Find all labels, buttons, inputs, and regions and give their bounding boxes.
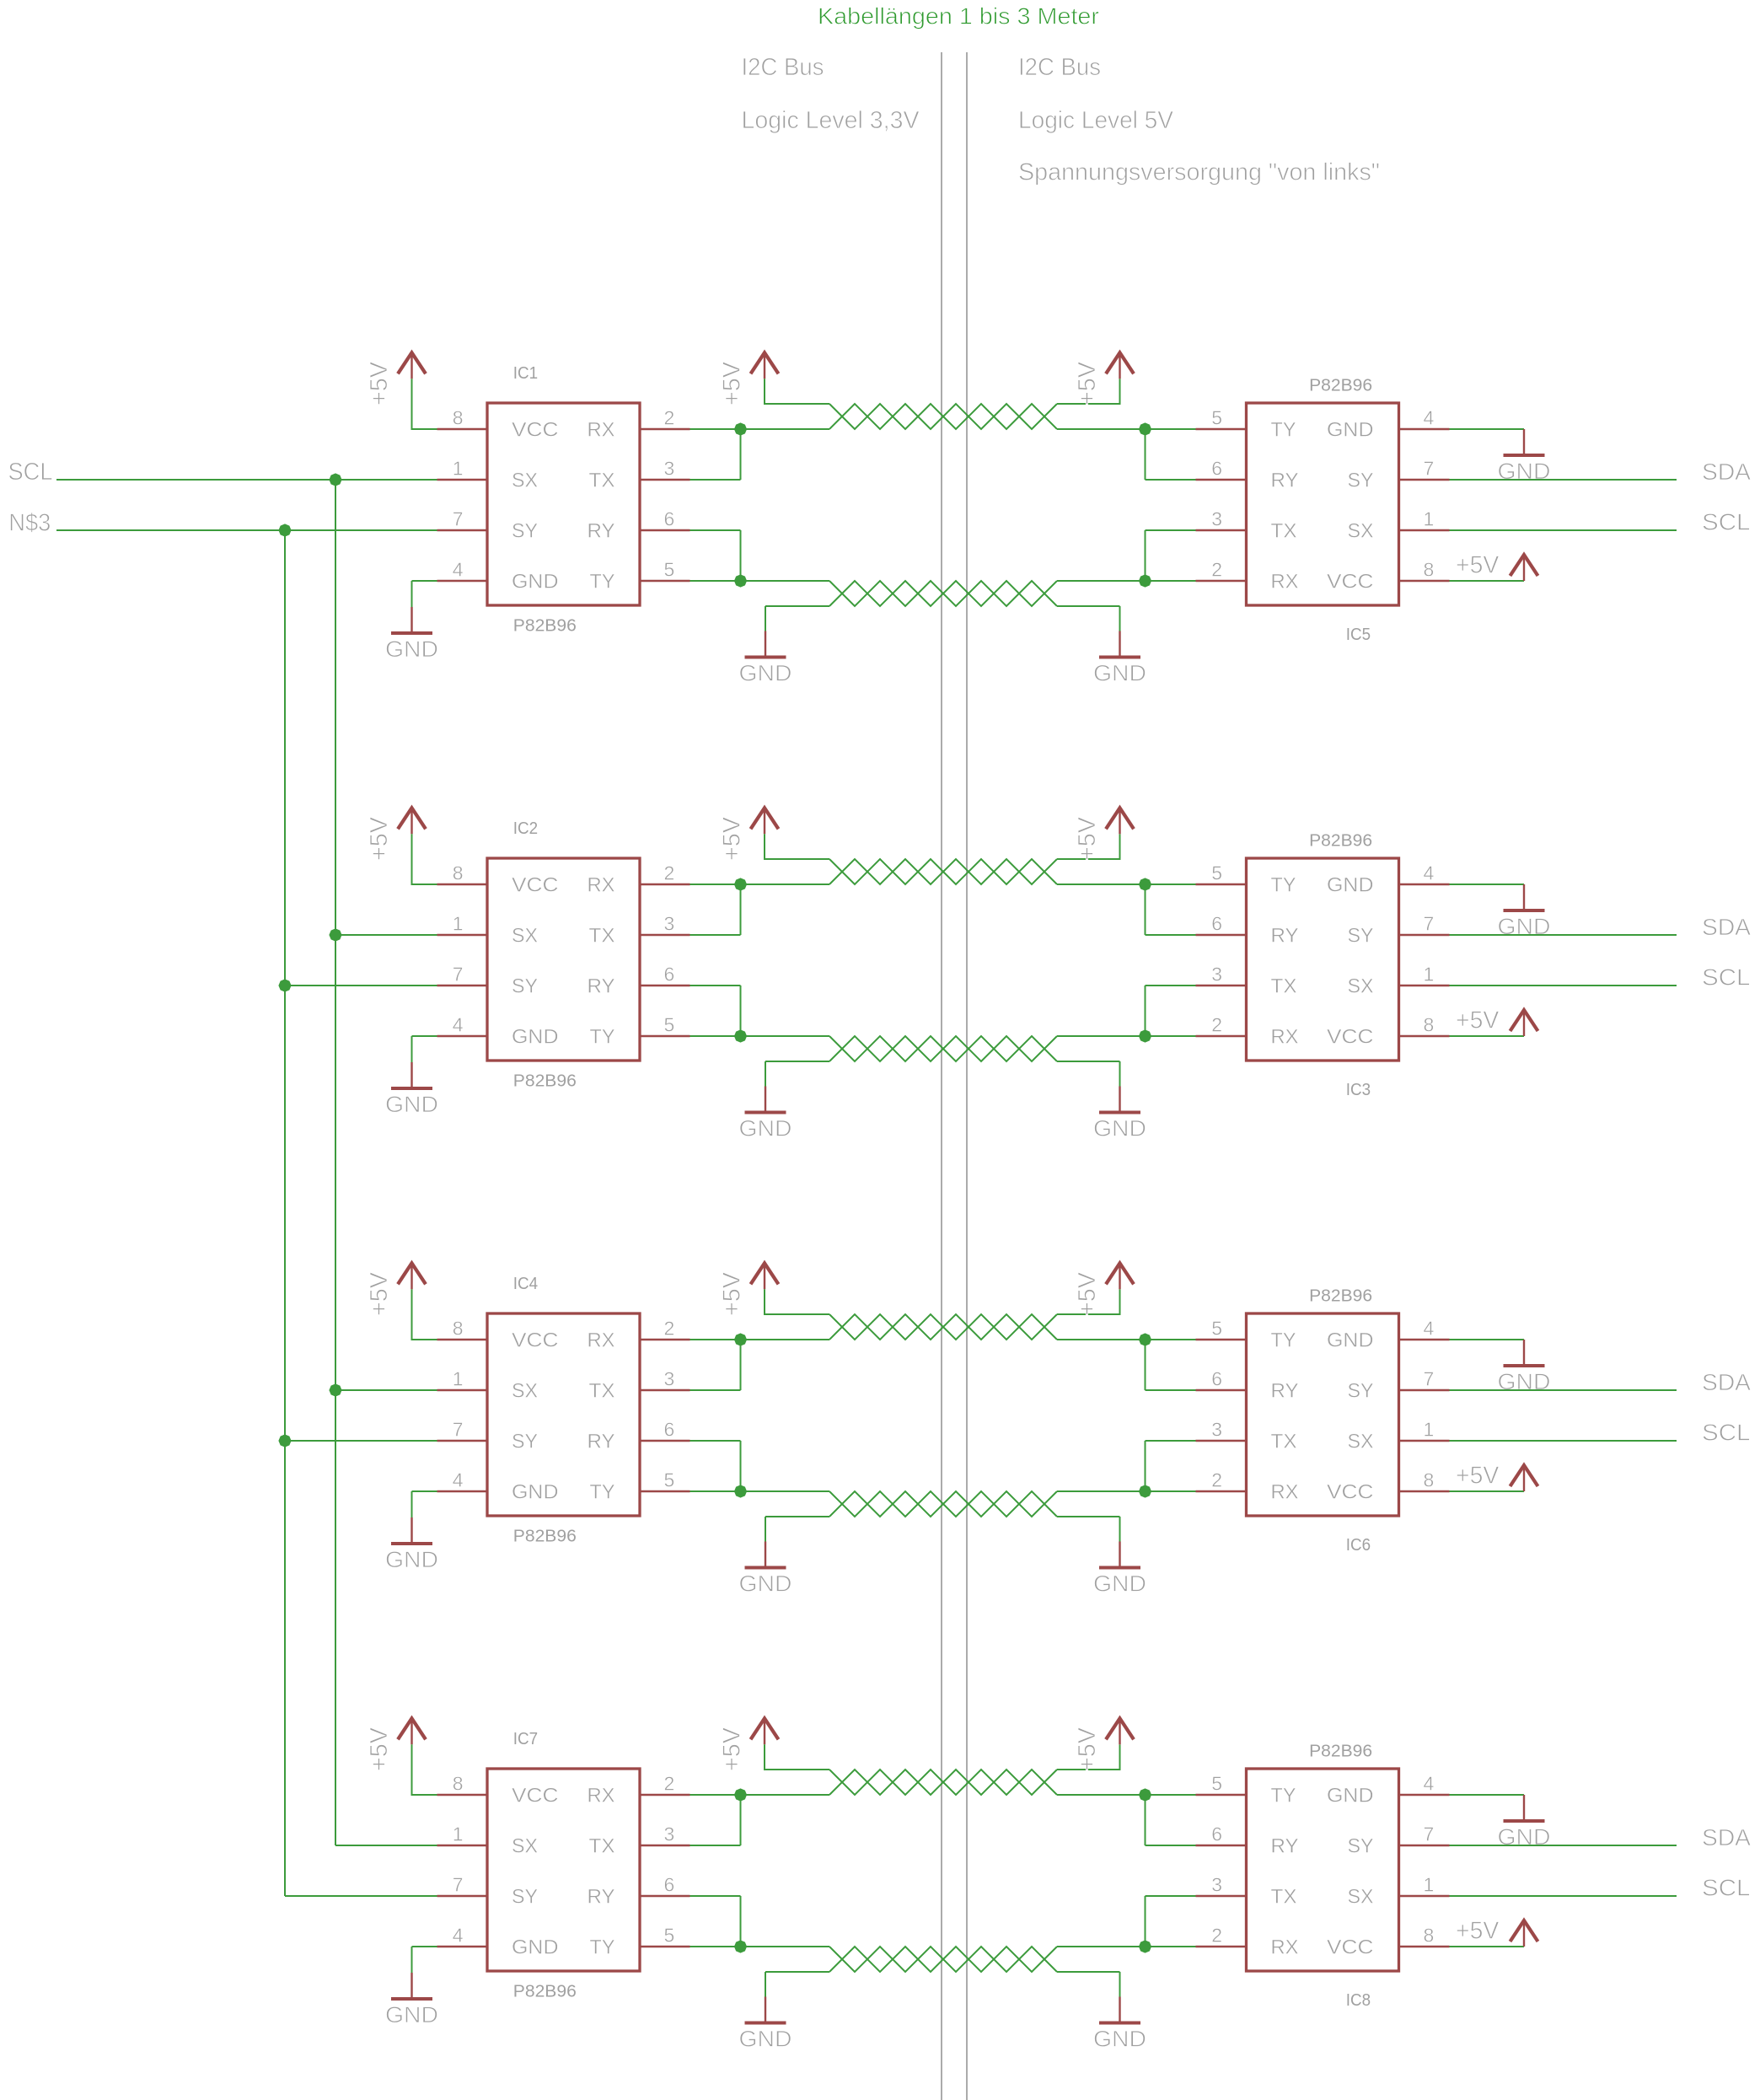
svg-text:3: 3 xyxy=(1211,1419,1222,1441)
svg-text:TX: TX xyxy=(1271,1431,1297,1453)
svg-text:5: 5 xyxy=(1211,1773,1222,1795)
IC3 pin 2 (RX) xyxy=(1196,1014,1247,1037)
label IC6 xyxy=(1346,1536,1371,1555)
svg-text:GND: GND xyxy=(512,1481,559,1504)
svg-text:SX: SX xyxy=(1348,1886,1374,1909)
svg-text:+5V: +5V xyxy=(719,816,746,861)
IC3 pin 8 (VCC) xyxy=(1399,1014,1450,1037)
label +5V rotated at IC2 xyxy=(366,816,393,861)
svg-text:3: 3 xyxy=(664,913,675,935)
IC1 pin 1 (SX) xyxy=(437,458,488,481)
ground symbol at IC5 pin 4 xyxy=(1498,429,1551,484)
net label SCL right row 3 xyxy=(1702,1420,1751,1446)
svg-text:7: 7 xyxy=(1424,1823,1435,1845)
svg-text:6: 6 xyxy=(664,508,675,530)
wire net SDA row 3 xyxy=(1450,1389,1677,1391)
IC3 pin 5 (TY) xyxy=(1196,862,1247,885)
wire IC3 TX down to RX xyxy=(1146,986,1196,1036)
header Spannungsversorgung von links xyxy=(1018,158,1380,185)
net label SDA row 2 xyxy=(1702,914,1751,940)
IC IC8 P82B96 symbol body xyxy=(1247,1769,1399,1971)
label +5V rotated right of cable row 2 xyxy=(1074,816,1101,861)
svg-text:GND: GND xyxy=(512,571,559,593)
net label SCL right row 2 xyxy=(1702,964,1751,991)
svg-text:2: 2 xyxy=(664,1773,675,1795)
wire IC4 TX up to RX xyxy=(690,1340,741,1390)
twisted pair cable top row 1 xyxy=(829,404,1057,429)
wire net N$3 branch to IC7 SY xyxy=(285,1895,437,1897)
IC6 pin 1 (SX) xyxy=(1399,1419,1450,1442)
junction node IC8 TY/RY xyxy=(1139,1788,1151,1801)
IC2 pin 6 (RY) xyxy=(640,964,690,986)
wire cable shield to ground right row 4 xyxy=(1057,1972,1120,1997)
svg-text:SY: SY xyxy=(512,520,538,543)
svg-text:SX: SX xyxy=(1348,1431,1374,1453)
svg-text:RX: RX xyxy=(588,1329,615,1352)
svg-text:P82B96: P82B96 xyxy=(1309,1743,1372,1761)
IC8 pin 5 (TY) xyxy=(1196,1773,1247,1796)
svg-text:RX: RX xyxy=(588,419,615,442)
svg-text:GND: GND xyxy=(1093,2026,1146,2051)
svg-text:6: 6 xyxy=(1211,1368,1222,1390)
ground symbol at IC7 pin 4 xyxy=(385,1973,438,2027)
junction node IC8 TX/RX xyxy=(1139,1940,1151,1952)
label +5V rotated middle row 1 xyxy=(719,361,746,405)
IC5 pin 2 (RX) xyxy=(1196,559,1247,582)
svg-text:2: 2 xyxy=(664,862,675,884)
twisted pair cable bottom row 3 xyxy=(829,1491,1057,1517)
wire cable to IC8 TY xyxy=(1057,1794,1196,1796)
svg-text:GND: GND xyxy=(1327,419,1374,442)
wire bus line to cable bottom row 1 xyxy=(741,580,830,582)
svg-text:8: 8 xyxy=(1424,559,1435,581)
svg-text:TX: TX xyxy=(1271,975,1297,998)
svg-text:VCC: VCC xyxy=(1327,1936,1374,1959)
svg-text:5: 5 xyxy=(1211,1318,1222,1340)
IC6 pin 8 (VCC) xyxy=(1399,1469,1450,1492)
svg-text:6: 6 xyxy=(1211,1823,1222,1845)
svg-text:3: 3 xyxy=(664,1823,675,1845)
svg-text:7: 7 xyxy=(1424,913,1435,935)
label P82B96 under IC4 xyxy=(513,1528,577,1546)
wire IC2 RX to junction xyxy=(690,884,741,885)
svg-text:4: 4 xyxy=(1424,1318,1435,1340)
wire cable to IC6 TY xyxy=(1057,1339,1196,1340)
label IC1 xyxy=(513,364,538,383)
ground symbol at IC4 pin 4 xyxy=(385,1517,438,1572)
svg-text:4: 4 xyxy=(453,559,464,581)
label +5V rotated right of cable row 1 xyxy=(1074,361,1101,405)
wire IC4 RX to junction xyxy=(690,1339,741,1340)
IC3 pin 6 (RY) xyxy=(1196,913,1247,936)
label +5V at IC5 VCC xyxy=(1456,551,1500,578)
IC4 pin 5 (TY) xyxy=(640,1469,690,1492)
svg-text:+5V: +5V xyxy=(1074,816,1101,861)
label P82B96 above IC3 xyxy=(1309,832,1372,851)
IC3 pin 7 (SY) xyxy=(1399,913,1450,936)
wire IC6 RY up to TY xyxy=(1146,1340,1196,1390)
wire cable shield to ground right row 2 xyxy=(1057,1061,1120,1087)
svg-text:7: 7 xyxy=(1424,1368,1435,1390)
wire cable to IC3 RX xyxy=(1057,1035,1196,1037)
svg-text:3: 3 xyxy=(1211,1874,1222,1896)
IC6 pin 3 (TX) xyxy=(1196,1419,1247,1442)
wire +5V middle into cable row 3 xyxy=(764,1289,829,1314)
IC5 pin 1 (SX) xyxy=(1399,508,1450,531)
wire +5V middle into cable row 1 xyxy=(764,379,829,404)
wire bus line to cable top row 4 xyxy=(741,1794,830,1796)
wire bus line to cable top row 2 xyxy=(741,884,830,885)
junction node IC1 RY/TY xyxy=(734,574,747,587)
svg-text:RY: RY xyxy=(588,1431,615,1453)
svg-text:6: 6 xyxy=(1211,913,1222,935)
wire IC8 RY up to TY xyxy=(1146,1795,1196,1845)
svg-text:4: 4 xyxy=(453,1014,464,1036)
svg-text:+5V: +5V xyxy=(1456,1917,1500,1944)
svg-text:8: 8 xyxy=(453,407,464,429)
svg-text:RX: RX xyxy=(1271,1481,1299,1504)
IC2 pin 8 (VCC) xyxy=(437,862,488,885)
ground symbol right of cable row 1 xyxy=(1093,631,1146,686)
IC7 pin 6 (RY) xyxy=(640,1874,690,1897)
svg-text:7: 7 xyxy=(453,964,464,986)
ground symbol middle row 1 xyxy=(739,631,792,686)
wire IC1 TX up to RX xyxy=(690,429,741,480)
IC4 pin 3 (TX) xyxy=(640,1368,690,1391)
IC2 pin 2 (RX) xyxy=(640,862,690,885)
twisted pair cable bottom row 2 xyxy=(829,1036,1057,1061)
label IC7 xyxy=(513,1730,538,1748)
svg-text:6: 6 xyxy=(664,1874,675,1896)
wire net SCL right row 4 xyxy=(1450,1895,1677,1897)
wire +5V to IC2 pin 8 xyxy=(411,834,437,884)
ground symbol right of cable row 3 xyxy=(1093,1542,1146,1597)
svg-text:RX: RX xyxy=(1271,1936,1299,1959)
IC1 pin 5 (TY) xyxy=(640,559,690,582)
svg-text:SDA: SDA xyxy=(1702,1824,1751,1850)
svg-text:VCC: VCC xyxy=(512,1785,559,1807)
supply +5V arrow middle row 4 xyxy=(751,1718,779,1744)
svg-text:5: 5 xyxy=(664,1925,675,1947)
wire cable shield to ground middle row 3 xyxy=(765,1517,829,1542)
svg-text:TX: TX xyxy=(589,925,615,948)
wire IC8 TX down to RX xyxy=(1146,1896,1196,1947)
IC2 pin 3 (TX) xyxy=(640,913,690,936)
wire IC1 TY to junction xyxy=(690,580,741,582)
svg-text:IC6: IC6 xyxy=(1346,1536,1371,1555)
svg-text:RX: RX xyxy=(588,1785,615,1807)
IC8 pin 6 (RY) xyxy=(1196,1823,1247,1846)
svg-text:SCL: SCL xyxy=(1702,964,1751,991)
net label N$3 xyxy=(8,509,51,536)
svg-text:+5V: +5V xyxy=(366,816,393,861)
net label SCL right row 4 xyxy=(1702,1875,1751,1901)
svg-text:7: 7 xyxy=(453,1874,464,1896)
svg-text:RY: RY xyxy=(1271,1835,1299,1858)
IC8 pin 3 (TX) xyxy=(1196,1874,1247,1897)
svg-text:SDA: SDA xyxy=(1702,1369,1751,1395)
IC4 pin 6 (RY) xyxy=(640,1419,690,1442)
svg-text:SX: SX xyxy=(1348,520,1374,543)
IC8 pin 2 (RX) xyxy=(1196,1925,1247,1947)
wire bus line to cable top row 3 xyxy=(741,1339,830,1340)
junction node IC3 TY/RY xyxy=(1139,878,1151,890)
supply +5V arrow middle row 1 xyxy=(751,352,779,379)
svg-text:SY: SY xyxy=(1348,470,1374,492)
ground symbol middle row 2 xyxy=(739,1087,792,1141)
svg-text:4: 4 xyxy=(453,1925,464,1947)
label P82B96 above IC8 xyxy=(1309,1743,1372,1761)
supply +5V arrow at IC1 VCC xyxy=(398,352,426,379)
svg-text:P82B96: P82B96 xyxy=(1309,377,1372,395)
IC2 pin 1 (SX) xyxy=(437,913,488,936)
svg-text:RY: RY xyxy=(1271,470,1299,492)
svg-text:1: 1 xyxy=(453,458,464,480)
svg-text:P82B96: P82B96 xyxy=(513,1072,577,1091)
svg-text:+5V: +5V xyxy=(1456,551,1500,578)
svg-text:+5V: +5V xyxy=(1074,1271,1101,1316)
wire net SDA row 1 xyxy=(1450,479,1677,481)
svg-text:7: 7 xyxy=(453,1419,464,1441)
svg-text:GND: GND xyxy=(512,1936,559,1959)
svg-text:TY: TY xyxy=(1271,1785,1296,1807)
svg-text:IC4: IC4 xyxy=(513,1275,538,1293)
svg-text:2: 2 xyxy=(664,1318,675,1340)
svg-text:4: 4 xyxy=(453,1469,464,1491)
svg-text:VCC: VCC xyxy=(512,874,559,897)
junction node IC6 TX/RX xyxy=(1139,1485,1151,1497)
IC IC6 P82B96 symbol body xyxy=(1247,1313,1399,1516)
svg-text:VCC: VCC xyxy=(1327,571,1374,593)
label P82B96 under IC1 xyxy=(513,617,577,636)
wire IC8 pin 4 to ground xyxy=(1450,1794,1525,1796)
IC IC1 P82B96 symbol body xyxy=(487,403,640,605)
supply +5V arrow at IC2 VCC xyxy=(398,808,426,834)
IC4 pin 2 (RX) xyxy=(640,1318,690,1340)
header Logic Level 3,3V xyxy=(742,107,920,134)
wire bus line to cable bottom row 2 xyxy=(741,1035,830,1037)
wire +5V to IC1 pin 8 xyxy=(411,379,437,429)
svg-text:SCL: SCL xyxy=(1702,1875,1751,1901)
svg-text:SY: SY xyxy=(512,1886,538,1909)
IC2 pin 4 (GND) xyxy=(437,1014,488,1037)
svg-text:1: 1 xyxy=(453,1368,464,1390)
label IC2 xyxy=(513,819,538,838)
IC1 pin 8 (VCC) xyxy=(437,407,488,430)
net label SDA row 4 xyxy=(1702,1824,1751,1850)
junction node IC7 RY/TY xyxy=(734,1940,747,1952)
header I2C Bus (left) xyxy=(742,54,824,81)
svg-text:SX: SX xyxy=(512,1835,538,1858)
svg-text:2: 2 xyxy=(664,407,675,429)
IC7 pin 3 (TX) xyxy=(640,1823,690,1846)
svg-text:IC3: IC3 xyxy=(1346,1081,1371,1099)
label IC8 xyxy=(1346,1991,1371,2010)
label +5V rotated middle row 2 xyxy=(719,816,746,861)
IC5 pin 7 (SY) xyxy=(1399,458,1450,481)
svg-text:IC7: IC7 xyxy=(513,1730,538,1748)
supply +5V arrow at IC5 VCC xyxy=(1510,555,1538,581)
wire net SCL branch to IC2 SX xyxy=(335,934,437,936)
svg-text:8: 8 xyxy=(453,1318,464,1340)
IC6 pin 4 (GND) xyxy=(1399,1318,1450,1340)
wire cable to IC6 RX xyxy=(1057,1490,1196,1492)
svg-text:IC5: IC5 xyxy=(1346,626,1371,644)
label P82B96 under IC2 xyxy=(513,1072,577,1091)
twisted pair cable bottom row 1 xyxy=(829,581,1057,606)
IC IC2 P82B96 symbol body xyxy=(487,858,640,1061)
supply +5V arrow right of cable row 1 xyxy=(1106,352,1134,379)
svg-text:2: 2 xyxy=(1211,559,1222,581)
wire IC4 RY down to TY xyxy=(690,1441,741,1491)
supply +5V arrow at IC3 VCC xyxy=(1510,1010,1538,1036)
ground symbol middle row 4 xyxy=(739,1997,792,2052)
svg-text:GND: GND xyxy=(385,1092,438,1117)
IC4 pin 1 (SX) xyxy=(437,1368,488,1391)
wire cable to IC3 TY xyxy=(1057,884,1196,885)
IC6 pin 6 (RY) xyxy=(1196,1368,1247,1391)
IC7 pin 5 (TY) xyxy=(640,1925,690,1947)
wire net N$3 branch to IC2 SY xyxy=(285,985,437,986)
wire bus line to cable top row 1 xyxy=(741,428,830,430)
wire net SDA row 2 xyxy=(1450,934,1677,936)
divider line left (bus boundary) xyxy=(941,52,942,2100)
junction node N$3 bus xyxy=(278,524,291,536)
label IC3 xyxy=(1346,1081,1371,1099)
junction node IC4 RX/TX xyxy=(734,1333,747,1345)
wire net SCL vertical bus xyxy=(335,480,336,1845)
svg-text:I2C Bus: I2C Bus xyxy=(742,54,824,81)
svg-text:SX: SX xyxy=(1348,975,1374,998)
svg-text:7: 7 xyxy=(1424,458,1435,480)
svg-text:RX: RX xyxy=(1271,571,1299,593)
svg-text:1: 1 xyxy=(1424,964,1435,986)
svg-text:N$3: N$3 xyxy=(8,509,51,536)
supply +5V arrow middle row 3 xyxy=(751,1263,779,1289)
svg-text:P82B96: P82B96 xyxy=(513,617,577,636)
svg-text:RY: RY xyxy=(1271,1380,1299,1403)
wire net SCL right row 1 xyxy=(1450,529,1677,531)
junction node N$3 bus row 2 xyxy=(278,979,291,991)
svg-text:+5V: +5V xyxy=(719,1727,746,1771)
svg-text:RX: RX xyxy=(1271,1026,1299,1049)
svg-text:5: 5 xyxy=(1211,407,1222,429)
svg-text:SX: SX xyxy=(512,1380,538,1403)
wire IC5 RY up to TY xyxy=(1146,429,1196,480)
svg-text:VCC: VCC xyxy=(512,419,559,442)
svg-text:RY: RY xyxy=(1271,925,1299,948)
supply +5V arrow middle row 2 xyxy=(751,808,779,834)
svg-text:SX: SX xyxy=(512,925,538,948)
wire cable to IC5 TY xyxy=(1057,428,1196,430)
svg-text:TY: TY xyxy=(590,1481,615,1504)
wire cable to IC8 RX xyxy=(1057,1946,1196,1947)
wire IC5 pin 8 to +5V xyxy=(1450,580,1525,582)
supply +5V arrow at IC8 VCC xyxy=(1510,1920,1538,1947)
svg-text:1: 1 xyxy=(1424,508,1435,530)
svg-text:GND: GND xyxy=(385,2002,438,2027)
wire net N$3 to IC1 SY xyxy=(56,529,437,531)
svg-text:8: 8 xyxy=(453,1773,464,1795)
net label SDA row 3 xyxy=(1702,1369,1751,1395)
svg-text:TY: TY xyxy=(590,1026,615,1049)
svg-text:GND: GND xyxy=(1327,1329,1374,1352)
wire cable top to +5V right row 1 xyxy=(1057,379,1120,405)
title Kabellaengen 1 bis 3 Meter xyxy=(818,3,1099,30)
svg-text:2: 2 xyxy=(1211,1469,1222,1491)
svg-text:+5V: +5V xyxy=(366,1727,393,1771)
label P82B96 above IC6 xyxy=(1309,1287,1372,1306)
IC6 pin 7 (SY) xyxy=(1399,1368,1450,1391)
svg-text:1: 1 xyxy=(453,1823,464,1845)
wire IC3 RY up to TY xyxy=(1146,884,1196,935)
net label SCL xyxy=(8,459,53,486)
ground symbol right of cable row 2 xyxy=(1093,1087,1146,1141)
junction node IC6 TY/RY xyxy=(1139,1333,1151,1345)
IC7 pin 8 (VCC) xyxy=(437,1773,488,1796)
svg-text:+5V: +5V xyxy=(1074,361,1101,405)
wire IC5 TX down to RX xyxy=(1146,530,1196,581)
svg-text:I2C Bus: I2C Bus xyxy=(1018,54,1101,81)
wire bus line to cable bottom row 4 xyxy=(741,1946,830,1947)
twisted pair cable top row 4 xyxy=(829,1770,1057,1795)
wire IC7 RY down to TY xyxy=(690,1896,741,1947)
net label SDA row 1 xyxy=(1702,459,1751,485)
svg-text:VCC: VCC xyxy=(1327,1026,1374,1049)
svg-text:SY: SY xyxy=(512,975,538,998)
svg-text:SY: SY xyxy=(512,1431,538,1453)
svg-text:+5V: +5V xyxy=(719,1271,746,1316)
junction node IC1 RX/TX xyxy=(734,422,747,435)
wire +5V to IC7 pin 8 xyxy=(411,1744,437,1795)
svg-text:SY: SY xyxy=(1348,925,1374,948)
ground symbol at IC8 pin 4 xyxy=(1498,1795,1551,1850)
svg-text:Logic Level 5V: Logic Level 5V xyxy=(1018,107,1174,134)
svg-text:SY: SY xyxy=(1348,1835,1374,1858)
IC IC7 P82B96 symbol body xyxy=(487,1769,640,1971)
header I2C Bus (right) xyxy=(1018,54,1101,81)
wire net N$3 vertical bus xyxy=(284,530,286,1896)
svg-text:GND: GND xyxy=(1093,660,1146,685)
svg-text:3: 3 xyxy=(664,458,675,480)
IC IC4 P82B96 symbol body xyxy=(487,1313,640,1516)
IC5 pin 8 (VCC) xyxy=(1399,559,1450,582)
svg-text:VCC: VCC xyxy=(512,1329,559,1352)
IC3 pin 4 (GND) xyxy=(1399,862,1450,885)
wire IC6 TX down to RX xyxy=(1146,1441,1196,1491)
ground symbol at IC3 pin 4 xyxy=(1498,884,1551,939)
IC1 pin 6 (RY) xyxy=(640,508,690,531)
svg-text:5: 5 xyxy=(664,1469,675,1491)
label +5V rotated right of cable row 3 xyxy=(1074,1271,1101,1316)
junction node IC5 TX/RX xyxy=(1139,574,1151,587)
wire IC5 pin 4 to ground xyxy=(1450,428,1525,430)
wire net N$3 branch to IC4 SY xyxy=(285,1440,437,1442)
svg-text:4: 4 xyxy=(1424,407,1435,429)
IC7 pin 7 (SY) xyxy=(437,1874,488,1897)
svg-text:+5V: +5V xyxy=(1074,1727,1101,1771)
wire net SCL to IC1 SX xyxy=(56,479,437,481)
IC6 pin 5 (TY) xyxy=(1196,1318,1247,1340)
svg-text:IC2: IC2 xyxy=(513,819,538,838)
svg-text:+5V: +5V xyxy=(366,361,393,405)
svg-text:+5V: +5V xyxy=(1456,1462,1500,1489)
svg-text:TY: TY xyxy=(1271,874,1296,897)
wire net SCL right row 3 xyxy=(1450,1440,1677,1442)
svg-text:TX: TX xyxy=(1271,1886,1297,1909)
svg-text:GND: GND xyxy=(385,1547,438,1572)
svg-text:P82B96: P82B96 xyxy=(513,1528,577,1546)
